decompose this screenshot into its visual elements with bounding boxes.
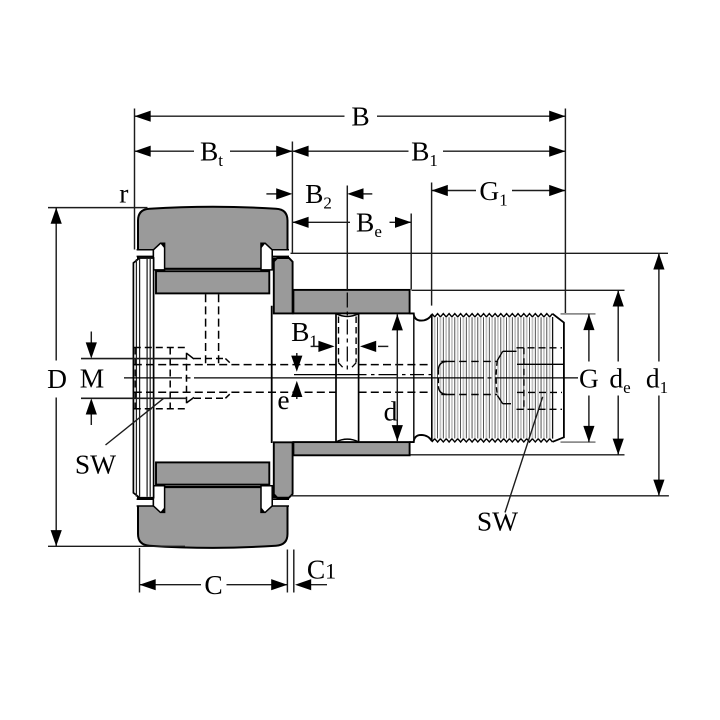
svg-text:SW: SW [477,506,518,537]
dimension B [135,115,345,117]
thread flank lines [435,317,553,438]
radial grease hole (hidden) [205,294,207,364]
hole axis centerline [346,293,348,374]
needle rollers bottom [156,462,269,484]
hex socket M (left end, hidden) [134,347,187,349]
socket cone in thread [497,351,502,360]
seal retainer bottom-right [272,499,289,506]
outer ring bore [137,270,291,486]
dimension d [396,314,398,441]
thread start line [431,315,433,442]
svg-text:d: d [384,396,398,427]
collar axis centerline [294,374,367,376]
dimension C [140,584,202,586]
dimension Bt [135,150,195,152]
svg-text:r: r [119,177,128,208]
duct end cap in thread [438,361,447,369]
seal retainer bottom-left [137,499,154,506]
svg-text:B: B [351,101,369,132]
extension lines [134,109,136,250]
svg-text:e: e [277,384,289,415]
stud head right face [271,306,273,443]
leader SW left [106,398,165,445]
svg-text:D: D [47,363,67,394]
dimension de [617,290,619,361]
duct bore hidden (thread area) [447,360,497,362]
stud surface / thread relief [410,313,432,320]
flange rim bottom [274,442,293,497]
thread end chamfer [552,317,554,439]
svg-text:SW: SW [75,449,116,480]
dimension C1 [311,584,328,586]
side plate [133,258,153,498]
flange rim top [274,258,293,313]
dimension M [81,358,187,360]
dimension B2 [266,193,277,195]
leader SW right [505,397,543,513]
seal retainer top-left [137,250,154,257]
thread crest top [432,314,553,317]
hex socket SW (thread end, hidden) [517,347,563,349]
main axis centerline [124,377,182,379]
dimension d1 [658,253,660,361]
hidden stud hole walls [338,317,340,363]
dimension e [296,353,298,357]
svg-text:C: C [204,569,222,600]
relief groove wall [413,315,415,442]
svg-text:M: M [80,363,104,394]
collar grease hole B1 [335,314,337,442]
outer ring [138,207,288,548]
dimension Be [292,221,350,223]
svg-text:C1: C1 [307,554,336,585]
dimension B1 [292,150,408,152]
needle rollers top [156,271,269,293]
dimension G1 [432,190,476,192]
dimension D [55,208,57,361]
eccentric collar top [293,290,409,314]
eccentric collar bottom [293,442,409,455]
dimension G [588,314,590,362]
thread crest bottom [432,439,553,442]
svg-text:G: G [579,363,599,394]
grease duct hidden lines [134,364,336,366]
seal retainer top-right [272,250,289,257]
